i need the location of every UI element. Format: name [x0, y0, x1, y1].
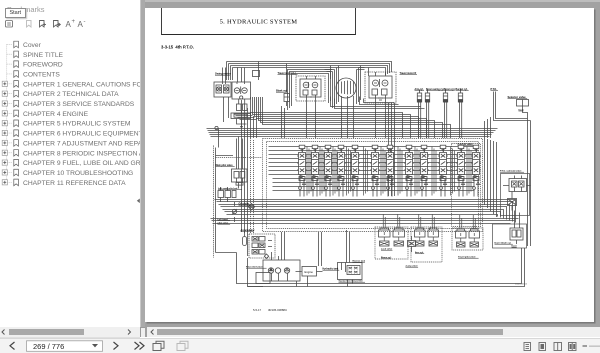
- view mode icons: [524, 342, 576, 350]
- svg-text:Selector valve: Selector valve: [508, 95, 527, 99]
- svg-text:51A31-08305: 51A31-08305: [515, 283, 528, 286]
- page box: [27, 340, 103, 351]
- arm cylinder 2-way valve group: [411, 214, 442, 262]
- hydraulic tank: [338, 263, 363, 280]
- svg-text:CHAPTER 11 REFERENCE DATA: CHAPTER 11 REFERENCE DATA: [23, 180, 126, 187]
- control valve section 3: [323, 145, 333, 197]
- boom cylinder lock valve group: [375, 214, 408, 259]
- travel valve group: [452, 215, 483, 250]
- svg-text:Cover: Cover: [23, 42, 42, 49]
- blank out plug: [284, 94, 290, 107]
- wire bundle: boom feed verticals: [389, 103, 395, 196]
- control valve section 4: [336, 145, 346, 197]
- oil cooler: [248, 204, 254, 210]
- wire bundle: right risers: [485, 138, 497, 217]
- wire bundle: travel L surround loops: [288, 70, 333, 111]
- wire: section pilot lines: [415, 147, 419, 196]
- wire: section pilot lines: [467, 147, 471, 196]
- last arrows: [135, 342, 145, 350]
- selector valve: [517, 100, 531, 247]
- svg-text:CHAPTER 8 PERIODIC INSPECTION: CHAPTER 8 PERIODIC INSPECTION AN: [23, 150, 140, 157]
- 2-way valve mid block: [408, 236, 416, 252]
- svg-text:CHAPTER 3 SERVICE STANDARDS: CHAPTER 3 SERVICE STANDARDS: [23, 101, 135, 108]
- svg-text:Engine: Engine: [305, 270, 314, 274]
- wire bundle: top distribution lines: [223, 62, 392, 93]
- svg-text:5. HYDRAULIC SYSTEM: 5. HYDRAULIC SYSTEM: [220, 19, 298, 26]
- control valve section 6: [370, 145, 380, 197]
- wire: section pilot lines: [432, 147, 436, 196]
- accumulator: [243, 232, 247, 246]
- page contents (uses page-absolute coordinates inside svg): [145, 7, 594, 321]
- svg-text:SPINE TITLE: SPINE TITLE: [23, 52, 64, 59]
- control valve section 12: [471, 145, 481, 197]
- wire bundle: left vertical feeders: [214, 114, 263, 258]
- svg-text:3R105-00888U: 3R105-00888U: [268, 308, 287, 312]
- document h-scrollbar: [147, 327, 600, 337]
- svg-text:CHAPTER 1 GENERAL CAUTIONS FOR: CHAPTER 1 GENERAL CAUTIONS FOR: [23, 81, 140, 88]
- control valve section 10: [438, 145, 448, 197]
- svg-text:CHAPTER 7 ADJUSTMENT AND REPAI: CHAPTER 7 ADJUSTMENT AND REPAI: [23, 140, 140, 147]
- svg-text:3-3-15 4th P.T.O.: 3-3-15 4th P.T.O.: [161, 45, 194, 50]
- bookmark tree: [0, 0, 140, 250]
- travel motor L: [296, 76, 325, 101]
- wire bundle: swivel to manifold staircase: [251, 97, 451, 138]
- svg-text:CHAPTER 2 TECHNICAL DATA: CHAPTER 2 TECHNICAL DATA: [23, 91, 119, 98]
- svg-text:5-5-17: 5-5-17: [253, 308, 262, 312]
- wire bundle: swivel side channels: [325, 66, 365, 109]
- svg-text:CHAPTER 4 ENGINE: CHAPTER 4 ENGINE: [23, 111, 89, 118]
- swivel joint circle: [336, 78, 356, 98]
- tooltip "Start": [5, 8, 26, 18]
- pilot solenoid block: [249, 234, 275, 258]
- splitter bottom handle: [140, 327, 149, 337]
- wire: P.T.O. drop line: [494, 92, 531, 121]
- P.T.O. solenoid valve: [501, 174, 531, 216]
- svg-text:FOREWORD: FOREWORD: [23, 62, 63, 69]
- control valve section 8: [404, 145, 414, 197]
- wire: section pilot lines: [333, 147, 337, 196]
- left main relief valve: [218, 187, 236, 202]
- wire: section pilot lines: [347, 147, 351, 196]
- svg-text:CHAPTER 9 FUEL, LUBE OIL AND G: CHAPTER 9 FUEL, LUBE OIL AND GRE: [23, 160, 140, 167]
- dozer valve group: [493, 211, 527, 249]
- panel h-scrollbar: [0, 327, 140, 337]
- control valve section 2: [310, 145, 320, 197]
- pump group: [256, 252, 300, 284]
- white page: [145, 8, 594, 322]
- control valve section 11: [456, 145, 466, 197]
- P.T.O. pilot block: [508, 192, 517, 211]
- svg-text:CHAPTER 5 HYDRAULIC SYSTEM: CHAPTER 5 HYDRAULIC SYSTEM: [23, 121, 131, 128]
- wire bundle: lower manifold bus: [215, 200, 516, 223]
- control valve manifold boundary: [263, 139, 483, 232]
- wire bundle: manifold galleries: [269, 147, 479, 191]
- travel motor R: [365, 72, 396, 103]
- control valve section 5: [350, 145, 360, 197]
- control valve section 7: [385, 145, 395, 197]
- page header box: [162, 8, 356, 35]
- svg-text:269 / 776: 269 / 776: [33, 342, 64, 351]
- swing motor: [214, 82, 251, 130]
- wire: section pilot lines: [398, 147, 402, 196]
- wire: section pilot lines: [307, 147, 311, 196]
- svg-text:Swing motor: Swing motor: [215, 72, 231, 76]
- wire: section pilot lines: [381, 147, 385, 196]
- wire bundle: vertical feeders: [242, 96, 491, 266]
- check valve left: [232, 202, 237, 222]
- engine box: [296, 267, 323, 277]
- main pilot valve: [232, 139, 248, 186]
- wire bundle: bottom bus: [216, 230, 525, 287]
- wire: section pilot lines: [320, 147, 324, 196]
- wire bundle: mid bus: [211, 219, 519, 224]
- svg-text:CONTENTS: CONTENTS: [23, 71, 60, 78]
- next arrow: [114, 342, 119, 350]
- snapshot icons: [153, 341, 164, 350]
- wire bundle: upper horizontal bus: [207, 129, 498, 137]
- prev arrow: [10, 342, 15, 350]
- control valve section 1: [297, 145, 307, 197]
- wire bundle: upper cross lines: [331, 97, 425, 109]
- panel heading: [7, 5, 45, 14]
- svg-text:CHAPTER 6 HYDRAULIC EQUIPMENT: CHAPTER 6 HYDRAULIC EQUIPMENT: [23, 131, 140, 138]
- control valve section 9: [419, 145, 429, 197]
- wire: section pilot lines: [451, 147, 455, 196]
- svg-text:CHAPTER 10 TROUBLESHOOTING: CHAPTER 10 TROUBLESHOOTING: [23, 170, 133, 177]
- toolbar icons: [0, 0, 140, 40]
- zoom minus + slider: [583, 345, 588, 346]
- arm / boom / bucket cylinders: [417, 90, 462, 139]
- wire: section pilot lines: [364, 147, 368, 196]
